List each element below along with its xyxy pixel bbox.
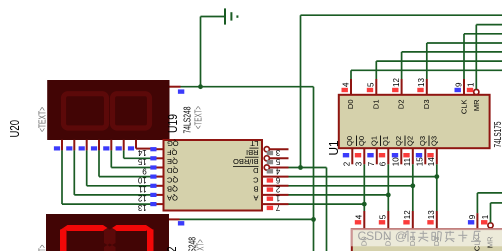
svg-text:4: 4	[341, 82, 350, 87]
svg-text:13: 13	[137, 203, 146, 212]
wire ground stem	[201, 17, 226, 87]
svg-text:12: 12	[403, 210, 412, 219]
svg-text:4: 4	[275, 166, 280, 175]
BCD decoder U19 74LS248 body	[164, 140, 263, 211]
svg-text:C: C	[253, 175, 259, 184]
watermark CSDN	[351, 228, 502, 246]
svg-text:B: B	[253, 185, 258, 194]
svg-text:Q2: Q2	[394, 136, 403, 146]
svg-text:Q3: Q3	[418, 136, 427, 146]
svg-text:1: 1	[481, 214, 490, 219]
wire fan display U20 to U19	[62, 149, 151, 205]
svg-text:U19: U19	[165, 114, 180, 133]
U2 MR pin 1 with bubble	[481, 203, 502, 248]
wire U19 A row	[289, 203, 365, 205]
7-segment display U20 showing ghost 00	[47, 80, 169, 140]
svg-text:QE: QE	[167, 157, 178, 166]
svg-text:3: 3	[355, 161, 364, 166]
svg-text:74LS175: 74LS175	[492, 121, 502, 147]
node junction BI/RBO vertical A	[298, 165, 303, 170]
U19 internal labels right	[233, 139, 259, 203]
svg-text:2: 2	[343, 161, 352, 166]
svg-text:Q1: Q1	[369, 136, 378, 146]
svg-text:9: 9	[454, 82, 463, 87]
svg-text:CLK: CLK	[460, 100, 469, 115]
svg-text:15: 15	[416, 157, 425, 166]
svg-text:QA: QA	[167, 194, 178, 203]
svg-text:4: 4	[355, 214, 364, 219]
svg-text:BI/RBO: BI/RBO	[233, 157, 259, 166]
svg-text:7: 7	[275, 203, 280, 212]
svg-text:13: 13	[417, 78, 426, 87]
svg-text:D0: D0	[346, 100, 355, 110]
node junction display2 common	[311, 217, 316, 222]
wires U1 Qbar columns to U2	[364, 164, 437, 211]
U2 CLK pin 9 with wire	[468, 193, 502, 251]
svg-text:QF: QF	[167, 148, 178, 157]
U1 bottom pins Q0-Q3bar	[343, 136, 439, 167]
svg-text:<TEXT>: <TEXT>	[193, 106, 205, 129]
wire display2 common row	[179, 218, 314, 220]
svg-text:QG: QG	[167, 139, 179, 148]
wire top bus row 1	[301, 14, 502, 16]
svg-text:Q2: Q2	[405, 136, 414, 146]
node junction B row	[386, 193, 391, 198]
svg-text:QD: QD	[166, 166, 178, 175]
svg-text:12: 12	[392, 78, 401, 87]
svg-text:U20: U20	[7, 120, 22, 138]
svg-text:10: 10	[137, 175, 146, 184]
svg-text:3: 3	[275, 148, 280, 157]
svg-text:RBI: RBI	[246, 148, 259, 157]
svg-text:2: 2	[275, 185, 280, 194]
wire BI/RBO row	[289, 167, 327, 169]
svg-text:D3: D3	[422, 100, 431, 110]
quad D flip-flop U1 74LS175 body	[339, 95, 490, 148]
svg-text:9: 9	[142, 166, 147, 175]
U19 left pins QG-QA	[137, 147, 163, 212]
svg-text:10: 10	[392, 157, 401, 166]
wire U19 D row	[289, 176, 437, 178]
wire vertical A	[300, 15, 302, 167]
quad D flip-flop U2 74LS175 body partial	[352, 229, 502, 251]
svg-text:15: 15	[137, 157, 146, 166]
ground symbol	[225, 8, 237, 24]
svg-text:1: 1	[467, 82, 476, 87]
svg-text:12: 12	[137, 194, 146, 203]
svg-text:LT: LT	[250, 139, 259, 148]
wire BI/RBO vertical down	[326, 168, 328, 251]
svg-text:5: 5	[275, 157, 280, 166]
node junction display1 common	[198, 84, 203, 89]
display U21 common pin	[169, 219, 184, 225]
svg-text:14: 14	[427, 157, 436, 166]
svg-text:Q0: Q0	[357, 136, 366, 146]
svg-text:D2: D2	[397, 100, 406, 110]
wire U19 B row	[289, 194, 389, 196]
svg-text:A: A	[253, 194, 258, 203]
svg-text:D: D	[253, 166, 259, 175]
svg-text:6: 6	[379, 161, 388, 166]
svg-text:13: 13	[427, 210, 436, 219]
wire display1 common to vertical B	[180, 86, 314, 88]
svg-text:U1: U1	[326, 141, 341, 156]
svg-text:5: 5	[367, 82, 376, 87]
svg-text:Q3: Q3	[429, 136, 438, 146]
svg-text:7: 7	[367, 161, 376, 166]
display U20 common pin	[170, 87, 185, 94]
wire vertical B ground net	[313, 87, 315, 251]
svg-text:QC: QC	[166, 175, 178, 184]
svg-text:D1: D1	[371, 100, 380, 110]
U1 MR pin 1 with bubble	[467, 25, 502, 112]
U19 internal labels left	[166, 139, 178, 203]
svg-text:Q1: Q1	[381, 136, 390, 146]
svg-text:11: 11	[403, 157, 412, 166]
U1 top pins D0-D3 with bus wires	[341, 43, 502, 109]
node junction C row	[410, 183, 415, 188]
node junction A row	[362, 202, 367, 207]
svg-text:U2: U2	[164, 247, 179, 251]
svg-text:5: 5	[379, 214, 388, 219]
svg-text:9: 9	[468, 214, 477, 219]
7-segment display U21 lit partial	[46, 214, 169, 251]
U1 CLK pin 9	[454, 34, 502, 114]
svg-text:QB: QB	[167, 185, 178, 194]
svg-text:Q0: Q0	[345, 136, 354, 146]
node junction D row	[434, 174, 439, 179]
svg-text:<TEXT>: <TEXT>	[37, 245, 49, 251]
svg-text:6: 6	[275, 175, 280, 184]
svg-text:14: 14	[137, 148, 146, 157]
svg-text:CSDN @: CSDN @	[358, 229, 408, 243]
svg-text:11: 11	[138, 185, 147, 194]
U19 right pins	[263, 147, 289, 212]
svg-text:<TEXT>: <TEXT>	[194, 239, 206, 251]
svg-text:1: 1	[275, 194, 280, 203]
svg-text:<TEXT>: <TEXT>	[37, 107, 49, 132]
U2 top pins D0-D3	[355, 210, 441, 246]
svg-text:MR: MR	[472, 99, 481, 111]
display U20 bottom pins	[54, 140, 136, 151]
wire U19 C row	[289, 185, 413, 187]
